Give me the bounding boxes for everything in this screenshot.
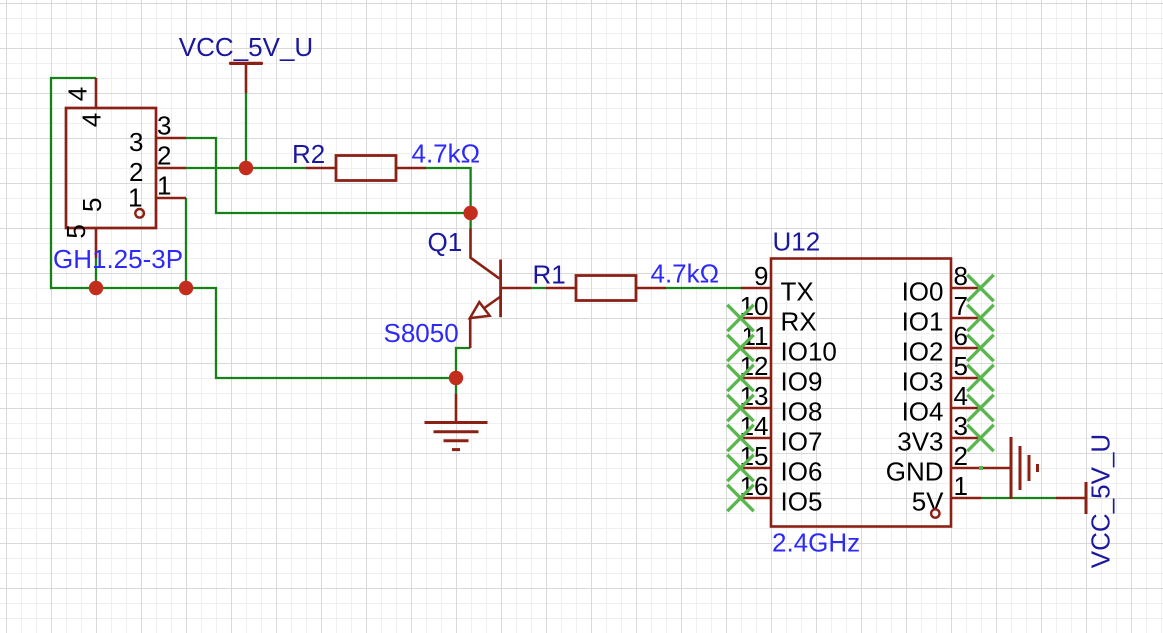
power VCC_5V_U right symbol (rotated) <box>1056 497 1086 500</box>
svg-text:RX: RX <box>781 306 817 336</box>
no-connect X on pin 13 <box>727 395 753 421</box>
wire pin3 to collector junction <box>186 138 471 213</box>
U12 pin 14 (IO7) stub <box>741 437 771 440</box>
wire U12 pin 1 to VCC <box>981 497 1056 499</box>
junction emitter / ground <box>449 371 463 385</box>
transistor Q1 base bar <box>499 260 502 318</box>
svg-text:IO6: IO6 <box>781 456 823 486</box>
svg-text:Q1: Q1 <box>428 227 463 257</box>
no-connect X on pin 14 <box>727 425 753 451</box>
connector pin 1 marker circle <box>135 209 144 218</box>
IC U12 body <box>771 259 951 527</box>
resistor R2 <box>336 156 396 181</box>
svg-text:IO9: IO9 <box>781 366 823 396</box>
U12 pin 7 (IO1) stub <box>951 317 981 320</box>
U12 pin 6 (IO2) stub <box>951 347 981 350</box>
U12 pin 11 (IO10) stub <box>741 347 771 350</box>
U12 pin 9 (TX) stub <box>741 287 771 290</box>
wire R1 to U12 pin 9 <box>666 287 741 289</box>
svg-text:R2: R2 <box>292 139 325 169</box>
power VCC_5V_U top symbol <box>231 62 262 65</box>
U12 pin 1 marker circle <box>931 509 939 517</box>
wire pin2 to R2 <box>186 167 306 169</box>
connector pin 3 stub <box>156 137 186 140</box>
svg-text:VCC_5V_U: VCC_5V_U <box>179 32 313 62</box>
svg-text:IO10: IO10 <box>781 336 837 366</box>
wire pin1 down to bottom rail <box>185 198 187 289</box>
no-connect X on pin 10 <box>727 305 753 331</box>
svg-text:5: 5 <box>61 224 91 238</box>
svg-text:2: 2 <box>954 441 968 471</box>
U12 pin 15 (IO6) stub <box>741 467 771 470</box>
junction node A (VCC/R2/pin2) <box>239 161 253 175</box>
svg-text:11: 11 <box>742 321 769 351</box>
wire VCC to node A <box>245 93 247 168</box>
connector P1 body <box>66 108 156 228</box>
no-connect X on pin 6 <box>967 335 993 361</box>
svg-text:1: 1 <box>954 471 968 501</box>
ground GND right symbol (rotated) <box>981 467 1011 470</box>
wire Q1 base to R1 <box>531 287 546 289</box>
no-connect X on pin 3 <box>967 425 993 451</box>
svg-text:IO5: IO5 <box>781 486 823 516</box>
transistor Q1 emitter <box>470 297 500 349</box>
svg-text:VCC_5V_U: VCC_5V_U <box>1086 434 1116 568</box>
svg-text:4: 4 <box>76 113 106 127</box>
junction bottom rail / pin1 <box>179 281 193 295</box>
no-connect X on pin 8 <box>967 275 993 301</box>
no-connect X on pin 5 <box>967 365 993 391</box>
svg-text:IO1: IO1 <box>902 306 944 336</box>
wire pin5 to bottom rail <box>95 258 97 288</box>
U12 pin 1 (5V) stub <box>951 497 981 500</box>
no-connect X on pin 11 <box>727 335 753 361</box>
svg-text:6: 6 <box>954 321 968 351</box>
svg-text:IO3: IO3 <box>902 366 944 396</box>
svg-text:3: 3 <box>954 411 968 441</box>
connector pin 5 stub <box>95 228 98 258</box>
svg-text:5: 5 <box>77 198 107 212</box>
svg-text:GH1.25-3P: GH1.25-3P <box>53 244 183 274</box>
svg-text:IO2: IO2 <box>902 336 944 366</box>
U12 pin 2 (GND) stub <box>951 467 981 470</box>
svg-text:1: 1 <box>128 183 142 213</box>
transistor Q1 collector <box>471 229 500 279</box>
svg-text:4.7kΩ: 4.7kΩ <box>412 139 481 169</box>
transistor Q1 base lead <box>501 287 531 290</box>
svg-text:7: 7 <box>954 291 968 321</box>
U12 pin 10 (RX) stub <box>741 317 771 320</box>
svg-text:TX: TX <box>781 276 814 306</box>
no-connect X on pin 12 <box>727 365 753 391</box>
svg-text:R1: R1 <box>533 260 566 290</box>
no-connect X on pin 7 <box>967 305 993 331</box>
svg-text:1: 1 <box>157 171 171 201</box>
svg-text:4: 4 <box>63 87 93 101</box>
wire bottom rail to emitter junction <box>51 288 456 378</box>
svg-text:5: 5 <box>954 351 968 381</box>
pin end dot GND <box>979 466 983 470</box>
svg-text:IO4: IO4 <box>902 396 944 426</box>
connector pin 2 stub <box>156 167 186 170</box>
svg-text:GND: GND <box>886 456 944 486</box>
U12 pin 5 (IO3) stub <box>951 377 981 380</box>
no-connect X on pin 15 <box>727 455 753 481</box>
svg-text:4: 4 <box>954 381 968 411</box>
connector pin 4 stub <box>95 78 98 108</box>
U12 pin 4 (IO4) stub <box>951 407 981 410</box>
svg-text:4.7kΩ: 4.7kΩ <box>651 259 720 289</box>
svg-text:IO0: IO0 <box>902 276 944 306</box>
svg-text:IO7: IO7 <box>781 426 823 456</box>
connector pin 1 stub <box>156 197 186 200</box>
svg-text:S8050: S8050 <box>384 318 459 348</box>
U12 pin 12 (IO9) stub <box>741 377 771 380</box>
junction bottom rail / pin5 <box>89 281 103 295</box>
svg-text:2: 2 <box>157 141 171 171</box>
wire R2 to collector node <box>426 168 471 229</box>
no-connect X on pin 16 <box>727 485 753 511</box>
svg-text:3: 3 <box>129 127 143 157</box>
svg-text:U12: U12 <box>773 227 821 257</box>
resistor R1 <box>576 276 636 301</box>
svg-text:3V3: 3V3 <box>897 426 943 456</box>
svg-text:9: 9 <box>754 261 768 291</box>
no-connect X on pin 4 <box>967 395 993 421</box>
wire emitter to junction <box>456 348 470 379</box>
wire net VCC top-left loop <box>51 78 96 289</box>
svg-text:2.4GHz: 2.4GHz <box>772 528 860 558</box>
svg-text:IO8: IO8 <box>781 396 823 426</box>
junction collector node <box>463 206 477 220</box>
transistor Q1 emitter arrow <box>470 302 490 318</box>
U12 pin 8 (IO0) stub <box>951 287 981 290</box>
wire junction to ground <box>455 378 457 394</box>
U12 pin 3 (3V3) stub <box>951 437 981 440</box>
svg-text:8: 8 <box>954 261 968 291</box>
U12 pin 16 (IO5) stub <box>741 497 771 500</box>
U12 pin 13 (IO8) stub <box>741 407 771 410</box>
svg-text:3: 3 <box>157 111 171 141</box>
ground GND bottom symbol <box>455 394 458 423</box>
